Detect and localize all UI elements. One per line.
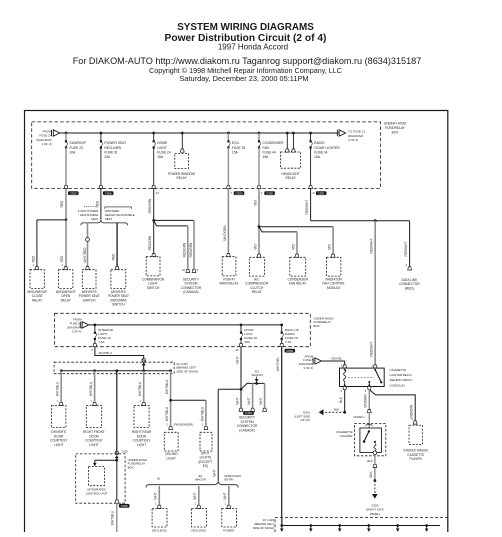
svg-text:(PASSENGER): (PASSENGER)	[174, 423, 194, 427]
svg-text:WHT/BLU: WHT/BLU	[56, 381, 60, 396]
svg-text:MODULE: MODULE	[327, 286, 341, 290]
svg-text:C555: C555	[70, 191, 77, 195]
svg-text:RED/GRN: RED/GRN	[189, 242, 193, 257]
svg-text:DOME: DOME	[157, 141, 168, 145]
svg-text:BOX: BOX	[128, 465, 134, 469]
svg-text:WHT/GRN: WHT/GRN	[223, 225, 227, 241]
svg-text:Saturday, December 23, 2000 0: Saturday, December 23, 2000 05:11PM	[179, 74, 308, 83]
svg-text:MAIN RELAY: MAIN RELAY	[219, 282, 239, 286]
svg-text:VIO/BLU: VIO/BLU	[353, 415, 364, 419]
svg-text:RED/GRN: RED/GRN	[182, 242, 186, 257]
svg-text:FUSE 23: FUSE 23	[70, 146, 84, 150]
svg-text:RED/WHT: RED/WHT	[404, 242, 408, 257]
svg-text:WHT/BLU: WHT/BLU	[165, 379, 169, 394]
svg-text:C453: C453	[245, 411, 252, 415]
svg-text:PANEL): PANEL)	[370, 512, 380, 516]
svg-text:WAGON: WAGON	[195, 477, 206, 481]
svg-text:C556: C556	[105, 191, 112, 195]
svg-text:RECLINER: RECLINER	[104, 146, 121, 150]
svg-text:C550: C550	[286, 349, 293, 353]
svg-text:FUSE 44: FUSE 44	[263, 150, 277, 154]
svg-text:VIO/GRN: VIO/GRN	[410, 404, 414, 418]
svg-text:SEAT: SEAT	[91, 217, 99, 221]
svg-text:CIGARETTE: CIGARETTE	[390, 368, 407, 372]
svg-text:C425: C425	[122, 450, 129, 454]
svg-text:WHT/BLU: WHT/BLU	[99, 351, 113, 355]
svg-text:RELAY: RELAY	[285, 176, 296, 180]
svg-text:WHT: WHT	[223, 492, 227, 499]
svg-text:LIGHT: LIGHT	[89, 443, 98, 447]
svg-text:1 OF 4): 1 OF 4)	[41, 142, 51, 146]
svg-text:4 OF 4): 4 OF 4)	[348, 138, 358, 142]
svg-text:LIGHTER RELAY: LIGHTER RELAY	[390, 373, 413, 377]
svg-text:20A: 20A	[104, 155, 111, 159]
svg-text:CONDENSER: CONDENSER	[263, 141, 285, 145]
svg-text:20A: 20A	[70, 150, 77, 154]
svg-text:WHT: WHT	[247, 397, 251, 404]
svg-text:RED/GRN: RED/GRN	[148, 198, 152, 213]
svg-text:BOX: BOX	[392, 131, 400, 135]
svg-text:WHT: WHT	[213, 469, 217, 476]
svg-text:C551: C551	[318, 191, 325, 195]
svg-text:14: 14	[156, 191, 160, 195]
svg-text:7.5A: 7.5A	[98, 340, 105, 344]
svg-text:VIO/GRN: VIO/GRN	[364, 394, 368, 408]
svg-text:CASSETTE: CASSETTE	[407, 453, 424, 457]
svg-text:1997 Honda Accord: 1997 Honda Accord	[218, 43, 288, 52]
svg-text:VIO: VIO	[291, 244, 295, 250]
svg-text:SUNROOF: SUNROOF	[70, 141, 87, 145]
svg-text:LIGHT: LIGHT	[137, 443, 146, 447]
svg-text:RADIO: RADIO	[314, 141, 325, 145]
svg-text:WHT: WHT	[193, 492, 197, 499]
svg-text:FUSE 24: FUSE 24	[157, 150, 171, 154]
svg-text:BOX: BOX	[314, 324, 320, 328]
svg-text:3 OF 4): 3 OF 4)	[303, 366, 313, 370]
svg-text:RED: RED	[112, 253, 116, 260]
svg-text:RED/WHT: RED/WHT	[369, 342, 373, 357]
svg-text:WHT/BLU: WHT/BLU	[89, 381, 93, 396]
svg-text:For DIAKOM-AUTO http://www.dia: For DIAKOM-AUTO http://www.diakom.ru Tag…	[73, 56, 422, 66]
svg-text:RED: RED	[60, 200, 64, 207]
svg-text:CIGAR LIGHTER: CIGAR LIGHTER	[314, 146, 340, 150]
svg-text:LIGHT: LIGHT	[167, 456, 176, 460]
svg-text:WHT/BLU: WHT/BLU	[138, 381, 142, 396]
svg-text:UNDER-HOOD: UNDER-HOOD	[384, 122, 407, 126]
svg-text:LIGHTER: LIGHTER	[340, 434, 353, 438]
svg-text:WHT/YEL: WHT/YEL	[276, 357, 280, 371]
svg-text:C550: C550	[236, 191, 243, 195]
svg-text:LIGHT: LIGHT	[157, 146, 167, 150]
svg-text:15A: 15A	[232, 150, 239, 154]
svg-text:VIO: VIO	[253, 244, 257, 250]
svg-text:POWER: POWER	[223, 529, 235, 533]
svg-text:WHT/BLU: WHT/BLU	[200, 406, 204, 421]
svg-text:BLK: BLK	[367, 459, 373, 463]
svg-text:20A: 20A	[244, 340, 250, 344]
svg-text:FAN: FAN	[263, 146, 270, 150]
svg-text:2 OF 4): 2 OF 4)	[72, 330, 82, 334]
svg-text:SIDE OF DASH): SIDE OF DASH)	[176, 369, 197, 373]
svg-text:POWER SEAT: POWER SEAT	[104, 141, 126, 145]
svg-text:WHT: WHT	[154, 492, 158, 499]
svg-text:VIO: VIO	[253, 200, 257, 206]
svg-text:WHT/BLU: WHT/BLU	[111, 510, 115, 525]
svg-text:D: D	[313, 191, 315, 195]
svg-text:WAGON: WAGON	[251, 373, 262, 377]
svg-text:OF I/P): OF I/P)	[301, 418, 310, 422]
svg-text:(CANADA): (CANADA)	[239, 428, 254, 432]
svg-text:15A: 15A	[314, 155, 321, 159]
svg-text:15A: 15A	[263, 155, 270, 159]
svg-text:FUSE 33: FUSE 33	[232, 146, 246, 150]
svg-text:VIO: VIO	[328, 244, 332, 250]
svg-text:BLK: BLK	[339, 396, 343, 403]
svg-text:FUSE 34: FUSE 34	[314, 150, 328, 154]
svg-text:C406: C406	[121, 504, 128, 508]
svg-text:15A: 15A	[157, 155, 164, 159]
svg-text:RELAY: RELAY	[32, 298, 43, 302]
svg-text:(BEHIND FRONT: (BEHIND FRONT	[390, 378, 413, 382]
svg-text:RED/GRN: RED/GRN	[148, 235, 152, 250]
svg-text:RED/WHT: RED/WHT	[369, 239, 373, 254]
svg-text:RELAY: RELAY	[176, 176, 187, 180]
svg-text:KEYLESS/: KEYLESS/	[192, 529, 207, 533]
svg-text:FUSE 31: FUSE 31	[104, 150, 118, 154]
svg-text:ENTRY: ENTRY	[224, 477, 234, 481]
svg-text:SIDE OF DASH): SIDE OF DASH)	[253, 526, 274, 530]
svg-text:BLK: BLK	[369, 471, 373, 478]
svg-text:ECU: ECU	[232, 141, 240, 145]
svg-text:16: 16	[235, 348, 239, 352]
svg-text:RED: RED	[31, 255, 35, 262]
svg-text:CONTROL UNIT: CONTROL UNIT	[86, 492, 108, 496]
svg-text:(CANADA): (CANADA)	[183, 290, 198, 294]
svg-text:STEREO RADIO/: STEREO RADIO/	[403, 448, 428, 452]
svg-text:BLK: BLK	[334, 408, 340, 412]
svg-text:16: 16	[157, 476, 161, 480]
svg-text:CONSOLE): CONSOLE)	[390, 383, 405, 387]
svg-text:WHT: WHT	[235, 356, 239, 363]
svg-text:SWITCH: SWITCH	[147, 286, 160, 290]
svg-text:LIGHT: LIGHT	[54, 443, 63, 447]
svg-text:FAN RELAY: FAN RELAY	[289, 282, 307, 286]
svg-text:SYSTEM WIRING DIAGRAMS: SYSTEM WIRING DIAGRAMS	[177, 22, 314, 33]
svg-text:WHT: WHT	[235, 397, 239, 404]
svg-text:PLAYER: PLAYER	[410, 457, 423, 461]
svg-text:RELAY: RELAY	[61, 298, 72, 302]
svg-text:C555: C555	[266, 191, 273, 195]
svg-text:7.5A: 7.5A	[285, 340, 292, 344]
svg-text:SEAT: SEAT	[105, 217, 113, 221]
svg-text:WHT/BLU: WHT/BLU	[165, 406, 169, 421]
svg-text:WHT: WHT	[259, 397, 263, 404]
svg-text:RED/WHT: RED/WHT	[305, 200, 309, 215]
svg-text:VIO/YEL: VIO/YEL	[331, 356, 343, 360]
svg-text:RELAY: RELAY	[252, 290, 263, 294]
svg-text:KEYLESS/: KEYLESS/	[152, 529, 167, 533]
svg-text:SWITCH: SWITCH	[112, 303, 125, 307]
svg-text:EX): EX)	[203, 464, 208, 468]
svg-text:FUSE/RELAY: FUSE/RELAY	[385, 126, 405, 130]
svg-text:SWITCH: SWITCH	[83, 298, 96, 302]
svg-text:RED: RED	[60, 255, 64, 262]
svg-text:(RED): (RED)	[405, 286, 414, 290]
svg-text:WHT/RED: WHT/RED	[83, 247, 87, 263]
